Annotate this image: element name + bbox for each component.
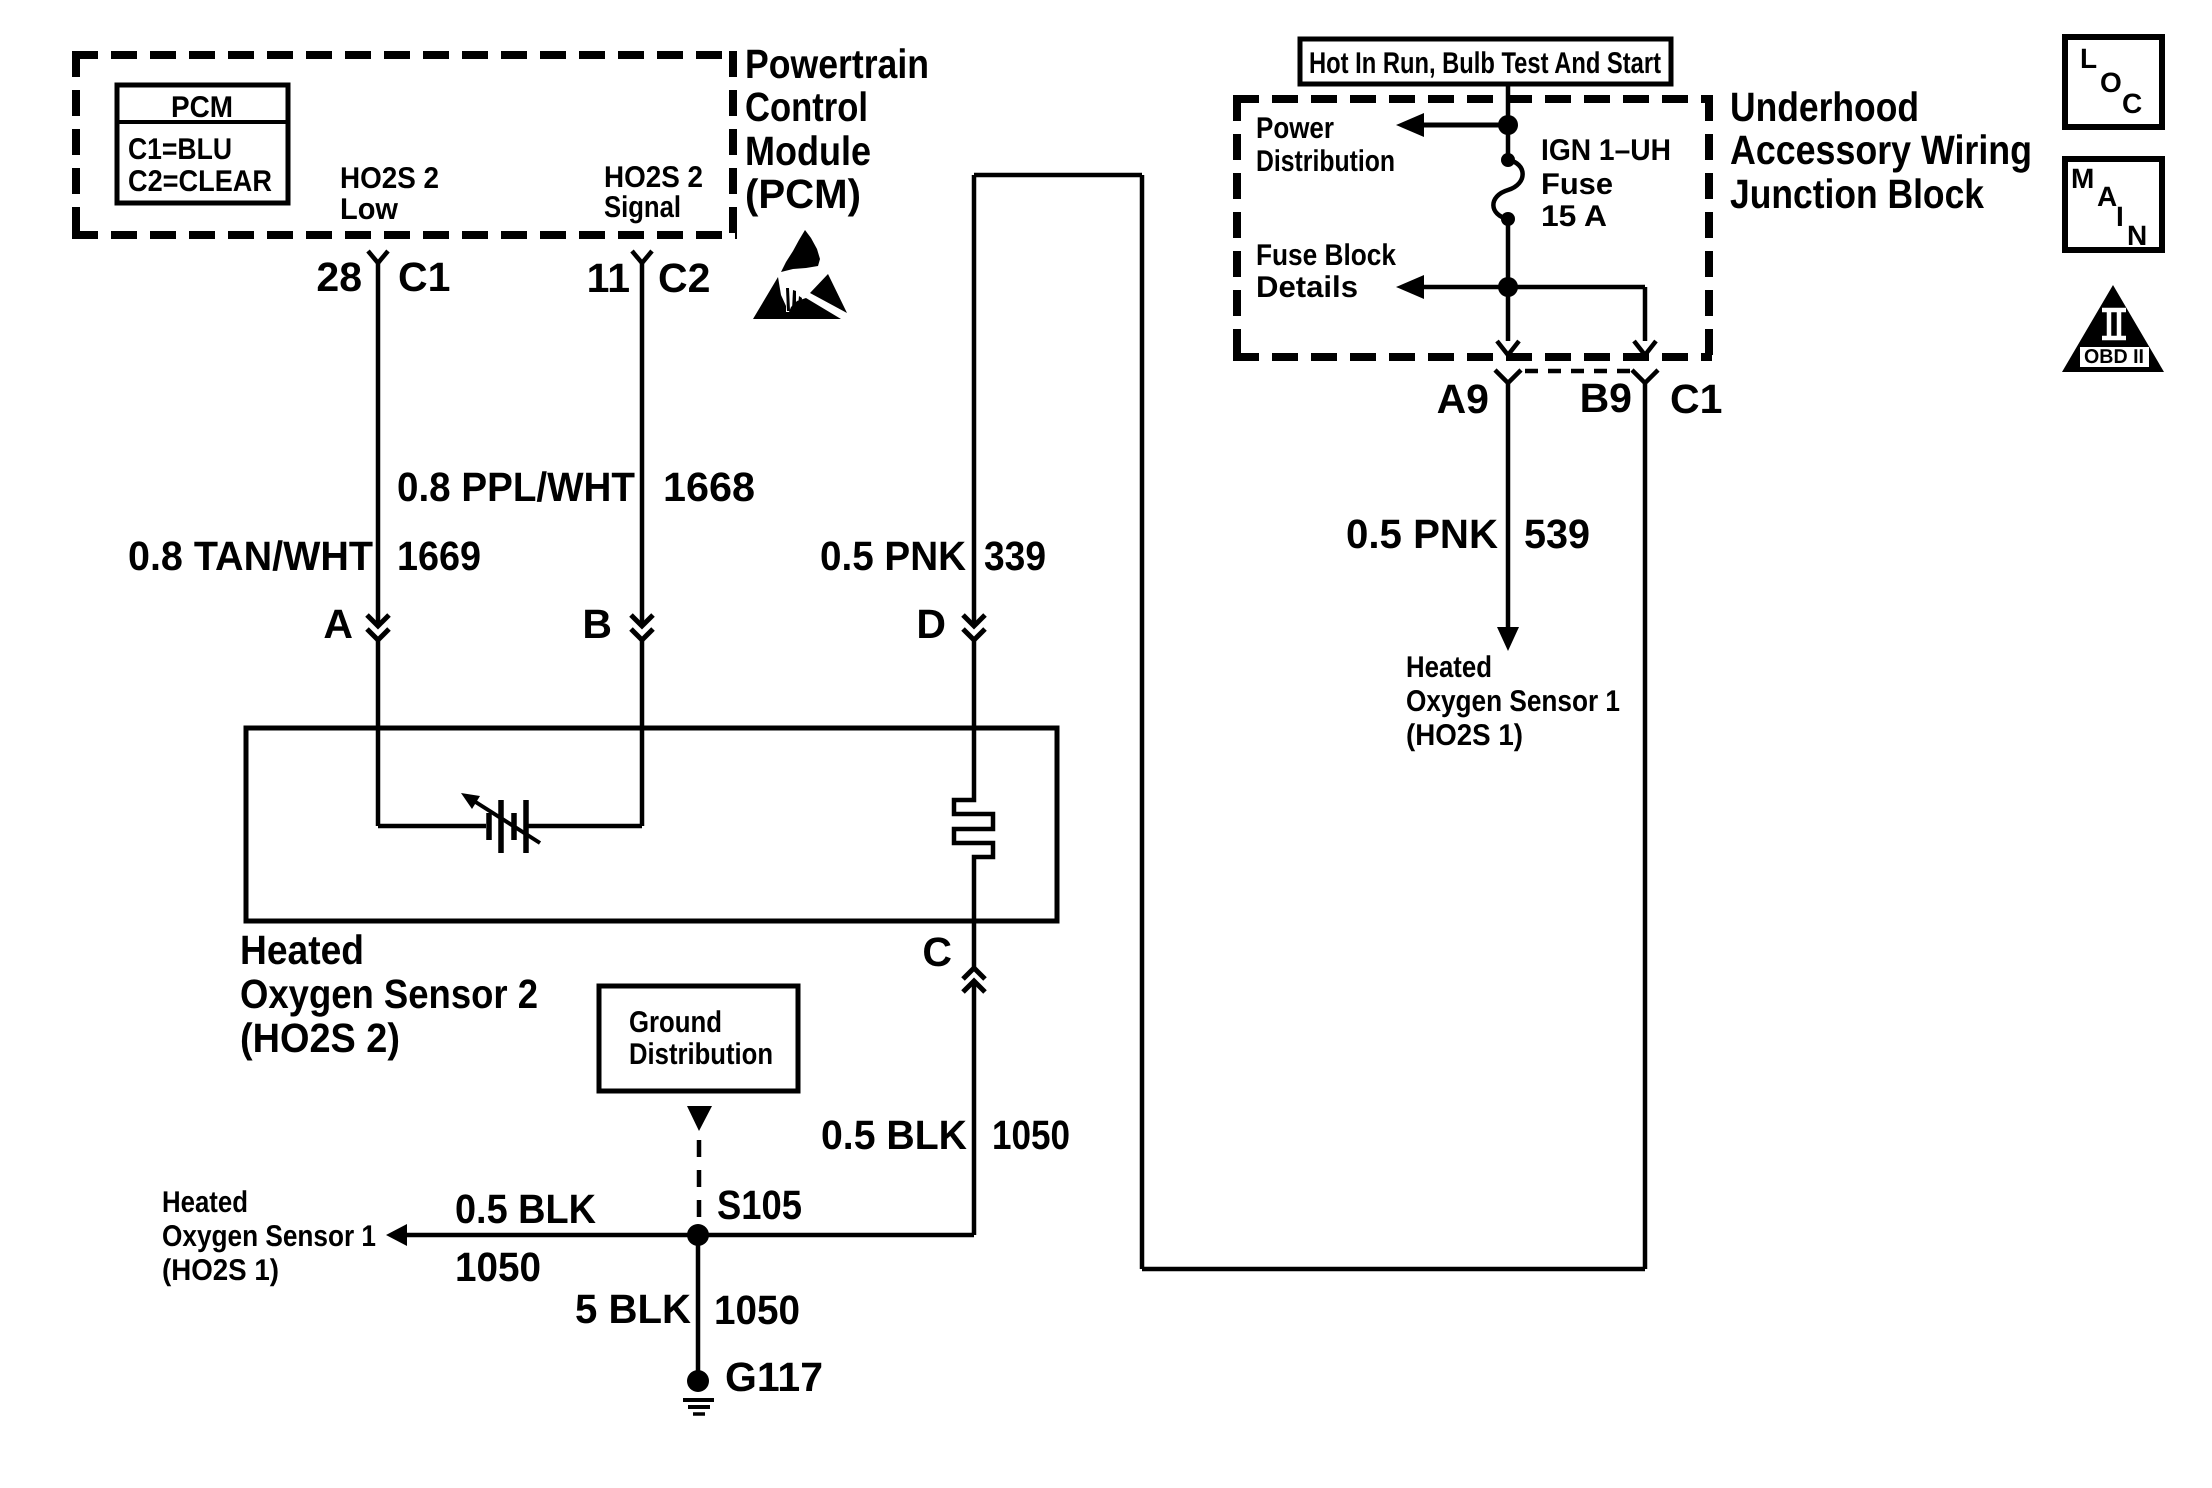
svg-text:C: C: [2122, 88, 2142, 119]
svg-text:0.8 PPL/WHT: 0.8 PPL/WHT: [397, 464, 635, 510]
connector A chevrons: [367, 615, 389, 640]
HO2S 2 sensor box: [246, 728, 1057, 921]
svg-text:Heated: Heated: [162, 1186, 248, 1219]
fuse block details arrow: [1396, 275, 1424, 299]
svg-text:1050: 1050: [992, 1112, 1070, 1158]
variable battery cell symbol: [474, 800, 540, 853]
svg-text:Oxygen Sensor 1: Oxygen Sensor 1: [1406, 685, 1620, 718]
ground bus horizontal wire: [404, 1233, 974, 1238]
svg-text:Distribution: Distribution: [629, 1038, 773, 1071]
fuse output wire: [1506, 219, 1511, 341]
dashed wire to S105: [697, 1140, 702, 1224]
svg-text:O: O: [2100, 67, 2122, 98]
svg-text:Control: Control: [745, 84, 868, 130]
svg-text:5 BLK: 5 BLK: [575, 1286, 691, 1332]
svg-text:0.5 BLK: 0.5 BLK: [455, 1186, 596, 1232]
svg-text:C: C: [922, 929, 952, 975]
power distribution wire: [1420, 123, 1508, 128]
svg-text:OBD II: OBD II: [2084, 346, 2144, 368]
svg-text:C2: C2: [658, 255, 710, 301]
svg-text:Distribution: Distribution: [1256, 145, 1395, 178]
wire 0.5 PNK 539: [1506, 383, 1511, 627]
svg-text:D: D: [916, 601, 946, 647]
PCM module dashed box: [72, 51, 737, 239]
pin 28 C1 connector fork: [368, 251, 388, 263]
fuse IGN 1-UH top terminal: [1501, 153, 1515, 167]
A9 connector fork: [1495, 370, 1521, 383]
svg-text:28: 28: [316, 254, 362, 300]
svg-text:(PCM): (PCM): [745, 171, 861, 217]
svg-text:A9: A9: [1437, 376, 1489, 422]
svg-text:HO2S 2: HO2S 2: [340, 162, 439, 195]
connector dashed line: [1525, 369, 1630, 374]
wire C upper segment: [972, 921, 977, 968]
wire A lower segment into sensor: [376, 640, 381, 826]
pin 11 C2 connector fork: [632, 251, 652, 263]
svg-text:1668: 1668: [663, 464, 755, 510]
arrow to HO2S 1 feed: [1497, 627, 1519, 651]
wire 339 bottom horizontal: [1142, 1267, 1645, 1272]
svg-text:HO2S 2: HO2S 2: [604, 161, 703, 194]
wire A upper segment (HO2S 2 Low): [376, 263, 381, 625]
ground symbol: [683, 1400, 714, 1414]
B9 C1 connector fork: [1632, 370, 1658, 383]
svg-text:0.5 BLK: 0.5 BLK: [821, 1112, 967, 1158]
svg-text:11: 11: [587, 255, 630, 301]
svg-text:C1: C1: [398, 254, 450, 300]
svg-text:I: I: [2116, 201, 2124, 232]
svg-text:(HO2S 2): (HO2S 2): [240, 1015, 400, 1061]
wire 339 far right vertical to C1: [1643, 383, 1648, 1269]
G117 ground dot: [687, 1370, 709, 1392]
A9 exit arrow: [1497, 341, 1519, 355]
svg-text:0.5 PNK: 0.5 PNK: [820, 533, 966, 579]
svg-text:G117: G117: [725, 1354, 823, 1400]
svg-text:C1: C1: [1670, 376, 1722, 422]
PCM connector table box: [117, 85, 288, 203]
svg-text:B: B: [582, 601, 612, 647]
svg-text:Module: Module: [745, 128, 871, 174]
Hot In Run, Bulb Test And Start box: [1300, 39, 1671, 84]
wire B upper segment (HO2S 2 Signal): [640, 263, 645, 625]
svg-text:M: M: [2071, 163, 2094, 194]
svg-text:Powertrain: Powertrain: [745, 41, 929, 87]
svg-text:S105: S105: [717, 1182, 802, 1228]
ESD sensitive device symbol: [753, 230, 847, 319]
wire B lower segment into sensor: [640, 640, 645, 826]
connector C chevrons: [963, 968, 985, 992]
svg-text:0.8 TAN/WHT: 0.8 TAN/WHT: [128, 533, 373, 579]
svg-text:A: A: [2097, 181, 2117, 212]
OBD II triangle symbol: [2062, 285, 2164, 372]
svg-text:Accessory Wiring: Accessory Wiring: [1730, 127, 2032, 173]
svg-text:Hot In Run, Bulb Test And Star: Hot In Run, Bulb Test And Start: [1309, 47, 1661, 80]
B9 exit arrow: [1634, 341, 1656, 355]
B9 branch wire: [1643, 287, 1648, 341]
wire D lower segment into sensor: [972, 640, 977, 728]
svg-text:Heated: Heated: [1406, 651, 1492, 684]
S105 splice dot: [687, 1224, 709, 1246]
svg-text:Fuse: Fuse: [1541, 168, 1613, 201]
svg-text:339: 339: [984, 533, 1046, 579]
fuse element: [1493, 160, 1522, 219]
junction node power distribution: [1498, 115, 1518, 135]
svg-text:A: A: [323, 601, 353, 647]
svg-text:Junction Block: Junction Block: [1730, 171, 1984, 217]
svg-text:Fuse Block: Fuse Block: [1256, 239, 1396, 272]
arrow to HO2S 1 ground: [386, 1224, 407, 1246]
svg-text:(HO2S 1): (HO2S 1): [1406, 719, 1523, 752]
wire C lower segment: [972, 981, 977, 1235]
Underhood junction block dashed box: [1233, 95, 1712, 361]
svg-text:Details: Details: [1256, 271, 1358, 304]
svg-text:Heated: Heated: [240, 927, 364, 973]
svg-text:L: L: [2080, 43, 2097, 74]
svg-text:0.5 PNK: 0.5 PNK: [1346, 511, 1498, 557]
Ground Distribution box: [599, 986, 798, 1091]
MAIN reference box: [2065, 159, 2162, 250]
wire D upper segment (0.5 PNK 339): [972, 175, 977, 625]
svg-text:539: 539: [1524, 511, 1590, 557]
ground distribution arrow: [687, 1106, 712, 1131]
wire 339 top horizontal: [974, 173, 1142, 178]
svg-text:1669: 1669: [397, 533, 481, 579]
junction node fuse output: [1498, 277, 1518, 297]
fuse IGN 1-UH bottom terminal: [1501, 212, 1515, 226]
svg-text:N: N: [2127, 220, 2147, 251]
svg-text:Oxygen Sensor 2: Oxygen Sensor 2: [240, 971, 538, 1017]
svg-text:C2=CLEAR: C2=CLEAR: [128, 165, 272, 198]
svg-text:Oxygen Sensor 1: Oxygen Sensor 1: [162, 1220, 376, 1253]
connector D chevrons: [963, 615, 985, 640]
svg-text:Ground: Ground: [629, 1006, 722, 1039]
svg-text:1050: 1050: [714, 1287, 800, 1333]
svg-text:C1=BLU: C1=BLU: [128, 133, 232, 166]
svg-text:IGN 1–UH: IGN 1–UH: [1541, 134, 1671, 167]
svg-text:Low: Low: [340, 193, 399, 226]
feed wire from hot box: [1506, 84, 1511, 160]
svg-text:15 A: 15 A: [1541, 200, 1607, 233]
LOC reference box: [2065, 37, 2162, 127]
svg-text:B9: B9: [1580, 375, 1632, 421]
fuse block details wire: [1420, 285, 1645, 290]
heater element symbol: [954, 728, 993, 921]
wire 339 right vertical: [1140, 175, 1145, 1269]
svg-text:Signal: Signal: [604, 191, 681, 224]
svg-text:Power: Power: [1256, 112, 1334, 145]
svg-text:Underhood: Underhood: [1730, 84, 1919, 130]
power distribution arrow: [1396, 113, 1424, 137]
wire S105 to G117: [696, 1235, 701, 1371]
connector B chevrons: [631, 615, 653, 640]
battery sense element wires: [378, 824, 486, 829]
svg-text:1050: 1050: [455, 1244, 541, 1290]
svg-text:PCM: PCM: [171, 91, 233, 124]
svg-text:(HO2S 1): (HO2S 1): [162, 1254, 279, 1287]
